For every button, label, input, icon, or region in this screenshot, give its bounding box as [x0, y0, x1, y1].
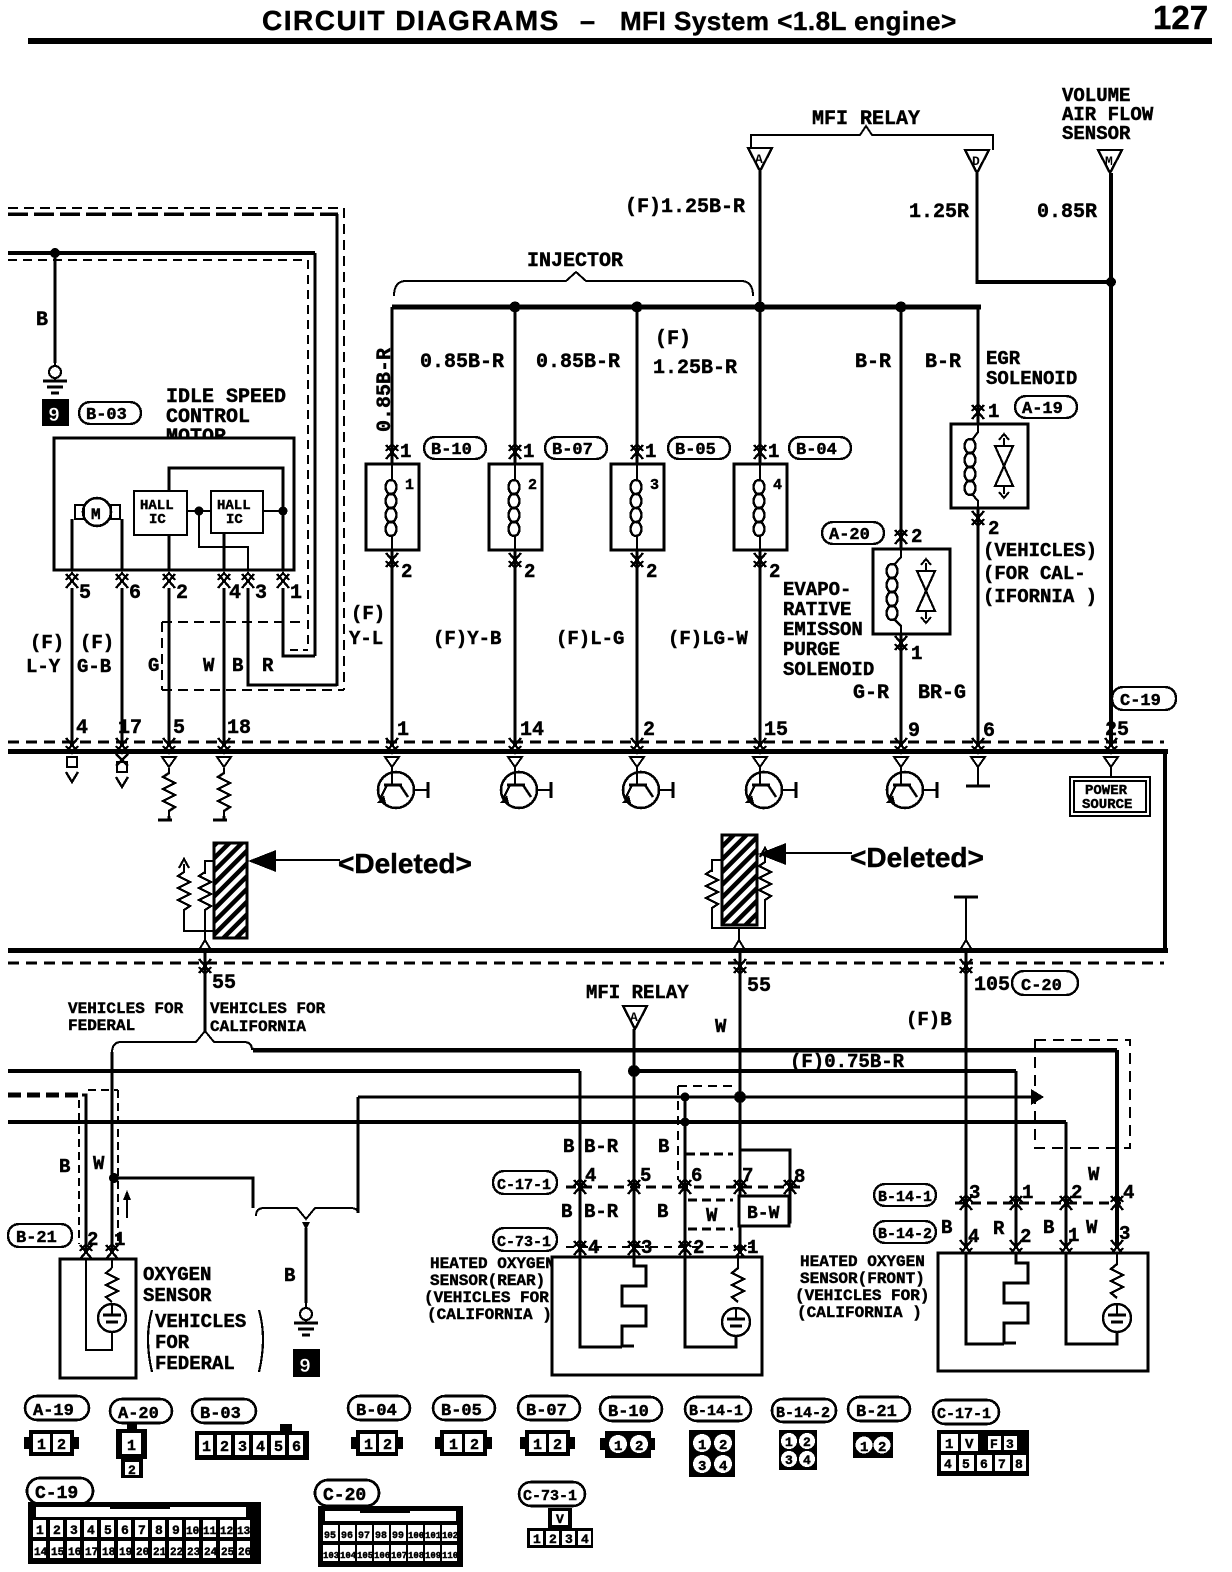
transistor at ECU pin 9 [886, 757, 937, 808]
svg-text:B: B [232, 655, 243, 677]
svg-text:2: 2 [470, 1437, 479, 1454]
wire pin6 to ECU pin17 [121, 588, 124, 745]
motor M circle [83, 498, 111, 526]
svg-text:(VEHICLES FOR): (VEHICLES FOR) [795, 1287, 929, 1305]
svg-text:2: 2 [53, 1523, 61, 1538]
svg-text:B-W: B-W [747, 1204, 780, 1224]
svg-text:104: 104 [340, 1551, 357, 1561]
internal element: sensor circle [98, 1304, 126, 1332]
svg-text:C-73-1: C-73-1 [523, 1488, 577, 1505]
bus line california y1048 [253, 1048, 1117, 1053]
ECU connector dashed line [8, 741, 1164, 744]
svg-text:(F)L-G: (F)L-G [556, 628, 624, 650]
relay terminal A triangle [748, 148, 772, 171]
svg-text:109: 109 [425, 1551, 441, 1561]
connector B-10 oval [600, 1397, 662, 1421]
connector C-17-1 pins [937, 1430, 1029, 1476]
motor lead wires [71, 519, 74, 570]
injector 1 coil [386, 480, 397, 536]
EGR pin 2 mark [972, 511, 984, 526]
connector oval B-03 [79, 402, 141, 424]
resistor right with arrow [760, 848, 770, 857]
svg-text:W: W [1086, 1217, 1098, 1239]
svg-text:1: 1 [768, 441, 779, 463]
svg-text:2: 2 [57, 1437, 66, 1454]
svg-text:6: 6 [691, 1165, 702, 1187]
svg-text:2: 2 [549, 1532, 557, 1547]
svg-text:0.85B-R: 0.85B-R [374, 348, 397, 432]
y1071 corner down [1014, 1071, 1017, 1248]
svg-text:B-03: B-03 [200, 1405, 241, 1424]
HALL IC 1 box [134, 491, 187, 535]
bracket under MFI RELAY [751, 126, 993, 150]
svg-text:B-21: B-21 [856, 1403, 897, 1422]
ground wire B [305, 1228, 308, 1303]
connector B-04 pins [351, 1430, 403, 1456]
rear sensor box [552, 1257, 762, 1375]
svg-text:<Deleted>: <Deleted> [850, 842, 984, 873]
purge pin 1 mark [895, 636, 907, 651]
heater return wire [966, 1253, 1004, 1344]
svg-text:3: 3 [650, 477, 659, 494]
svg-text:18: 18 [227, 717, 251, 740]
svg-text:6: 6 [983, 720, 995, 743]
svg-text:C-17-1: C-17-1 [937, 1406, 991, 1423]
HALL2 bottom wire (pin4) [223, 533, 226, 570]
svg-text:3: 3 [565, 1532, 573, 1547]
svg-text:C-20: C-20 [323, 1486, 366, 1506]
purge pin 2 mark [895, 529, 907, 544]
svg-text:6: 6 [129, 582, 141, 605]
svg-text:INJECTOR: INJECTOR [527, 250, 623, 273]
svg-text:1: 1 [397, 719, 409, 742]
resistor left [712, 860, 722, 872]
svg-text:W: W [1088, 1164, 1100, 1186]
svg-text:C-73-1: C-73-1 [497, 1234, 551, 1251]
svg-text:22: 22 [170, 1547, 183, 1559]
svg-text:12: 12 [220, 1526, 233, 1538]
injector 2 box [489, 464, 542, 550]
svg-text:B-07: B-07 [552, 441, 593, 460]
arrow to Deleted [758, 843, 786, 865]
connector oval A-19 [1015, 396, 1077, 418]
front sensor box [938, 1253, 1148, 1371]
connector oval A-20 [822, 522, 884, 544]
HALL link wire [187, 510, 211, 512]
svg-text:3: 3 [238, 1439, 247, 1456]
svg-text:23: 23 [187, 1547, 201, 1559]
svg-text:2: 2 [401, 561, 412, 583]
svg-text:1: 1 [523, 441, 534, 463]
svg-text:VEHICLES FOR: VEHICLES FOR [68, 1000, 184, 1018]
EGR coil [965, 439, 976, 495]
svg-text:1: 1 [37, 1437, 46, 1454]
svg-text:4: 4 [1123, 1182, 1134, 1204]
svg-text:4: 4 [585, 1165, 596, 1187]
svg-text:FEDERAL: FEDERAL [68, 1017, 135, 1035]
bus terminal marks [66, 738, 78, 753]
svg-text:9: 9 [908, 720, 920, 743]
svg-text:HEATED OXYGEN: HEATED OXYGEN [430, 1255, 555, 1273]
svg-text:SOLENOID: SOLENOID [783, 659, 874, 681]
svg-text:2: 2 [911, 526, 922, 548]
svg-text:14: 14 [520, 719, 544, 742]
up arrow mark [126, 1196, 128, 1218]
pin symbol at ECU pin 4 [66, 757, 78, 782]
svg-text:VEHICLES FOR: VEHICLES FOR [210, 1000, 326, 1018]
svg-text:Y-L: Y-L [349, 628, 383, 650]
injector 2 pin 2 mark [509, 553, 521, 568]
svg-text:CIRCUIT DIAGRAMS: CIRCUIT DIAGRAMS [262, 5, 560, 36]
injector 3 pin 1 mark [631, 444, 643, 459]
svg-text:4: 4 [581, 1532, 589, 1547]
svg-text:2: 2 [176, 582, 188, 605]
svg-text:3: 3 [70, 1523, 78, 1538]
svg-text:4: 4 [229, 582, 241, 605]
branch to ground brace [114, 1178, 253, 1208]
pin marks [960, 1195, 972, 1210]
wire pin1/R to inner shield [283, 588, 315, 656]
svg-text:C-17-1: C-17-1 [497, 1177, 551, 1194]
svg-text:14: 14 [34, 1547, 48, 1559]
pin marks on C-17-1 [574, 1179, 586, 1194]
svg-text:15: 15 [51, 1547, 65, 1559]
header rule [28, 38, 1212, 44]
svg-text:2: 2 [646, 561, 657, 583]
svg-text:2: 2 [635, 1439, 643, 1455]
svg-text:B: B [657, 1201, 668, 1223]
svg-text:(F)Y-B: (F)Y-B [433, 628, 501, 650]
injector 4 box [734, 464, 787, 550]
svg-text:4: 4 [944, 1457, 952, 1472]
sensor return [685, 1257, 736, 1347]
svg-text:1.25R: 1.25R [909, 201, 969, 224]
connector oval B-14-1 [874, 1184, 936, 1206]
transistor at ECU pin 15 [745, 757, 796, 808]
connector oval C-19 [1112, 687, 1176, 710]
california branch corner [252, 1048, 255, 1050]
junction at VAF wire [1106, 277, 1116, 287]
svg-text:1: 1 [400, 441, 411, 463]
shield dashes around B/W wires [88, 1089, 118, 1091]
svg-text:6: 6 [292, 1439, 301, 1456]
svg-text:1: 1 [202, 1439, 211, 1456]
svg-text:1: 1 [1022, 1182, 1033, 1204]
svg-text:F: F [990, 1437, 998, 1452]
svg-text:4: 4 [76, 717, 88, 740]
svg-text:127: 127 [1153, 0, 1208, 36]
wire 5 from dot down [632, 1029, 635, 1246]
svg-text:(VEHICLES FOR): (VEHICLES FOR) [424, 1289, 558, 1307]
wire 6 [683, 1097, 686, 1246]
svg-text:M: M [91, 506, 101, 524]
svg-text:4: 4 [803, 1453, 811, 1468]
svg-text:96: 96 [341, 1531, 353, 1542]
ground wire B [54, 253, 57, 363]
outer shield wire top [8, 212, 338, 216]
svg-text:B-R: B-R [584, 1201, 619, 1223]
injector 3 coil [631, 480, 642, 536]
svg-text:8: 8 [1015, 1457, 1023, 1472]
brace under INJECTOR [394, 272, 753, 296]
svg-text:11: 11 [203, 1526, 217, 1538]
svg-text:2: 2 [719, 1438, 727, 1454]
brace tick arrow [302, 1222, 310, 1230]
connector B-03 pins [195, 1424, 309, 1460]
svg-text:20: 20 [136, 1547, 149, 1559]
EGR valve bowtie [995, 434, 1013, 498]
connector B-14-2 pins [779, 1430, 817, 1470]
svg-text:(CALIFORNIA ): (CALIFORNIA ) [797, 1304, 922, 1322]
svg-text:102: 102 [442, 1531, 458, 1541]
svg-text:1.25B-R: 1.25B-R [653, 357, 737, 380]
svg-text:B: B [59, 1156, 70, 1178]
svg-text:4: 4 [968, 1226, 979, 1248]
wire to bottom with open triangle [738, 928, 740, 940]
connector oval C-17-1 [493, 1171, 557, 1194]
transistor at ECU pin 14 [500, 757, 551, 808]
svg-text:0.85B-R: 0.85B-R [420, 351, 504, 374]
svg-text:B: B [561, 1201, 572, 1223]
svg-text:10: 10 [186, 1526, 199, 1538]
motor box [54, 438, 294, 570]
svg-text:1: 1 [127, 1438, 136, 1455]
svg-text:B-07: B-07 [526, 1402, 567, 1421]
svg-text:0.85R: 0.85R [1037, 201, 1097, 224]
svg-text:EGR: EGR [986, 348, 1021, 370]
svg-text:101: 101 [425, 1531, 442, 1541]
bottom link wire [712, 908, 765, 928]
svg-text:D: D [972, 154, 980, 169]
connector oval B-05 [668, 437, 730, 459]
svg-text:L-Y: L-Y [26, 656, 61, 678]
svg-text:FOR: FOR [155, 1332, 190, 1354]
ECU right edge [1163, 751, 1167, 953]
wire D to M horizontal [977, 280, 1111, 284]
connector dashed box bottom [162, 689, 344, 691]
svg-text:V: V [556, 1512, 564, 1527]
svg-text:C-19: C-19 [35, 1484, 78, 1504]
svg-text:1: 1 [614, 1439, 622, 1455]
svg-text:1: 1 [290, 582, 302, 605]
svg-text:8: 8 [155, 1523, 163, 1538]
svg-text:105: 105 [357, 1551, 373, 1561]
injector bus wire [392, 305, 981, 310]
svg-text:1: 1 [860, 1440, 868, 1456]
connector C-19 oval [27, 1478, 93, 1504]
svg-text:1: 1 [945, 1437, 953, 1453]
california line corner down [1115, 1050, 1119, 1248]
ground symbol [43, 360, 67, 393]
svg-text:1: 1 [533, 1437, 542, 1454]
svg-text:G-B: G-B [77, 656, 111, 678]
power source entry pin 25 [1104, 757, 1118, 767]
svg-text:G: G [148, 655, 159, 677]
svg-text:B-21: B-21 [16, 1229, 57, 1248]
svg-text:2: 2 [528, 477, 537, 494]
connector A-19 pins [24, 1430, 79, 1456]
svg-text:A-20: A-20 [829, 526, 870, 545]
injector 4 wire [759, 307, 762, 745]
svg-text:B-14-1: B-14-1 [878, 1189, 932, 1206]
svg-text:B-14-2: B-14-2 [776, 1405, 830, 1422]
outer shield wire vertical [336, 214, 339, 686]
svg-text:BR-G: BR-G [918, 682, 966, 705]
svg-text:(F)0.75B-R: (F)0.75B-R [790, 1051, 905, 1073]
svg-text:PURGE: PURGE [783, 639, 840, 661]
POWER SOURCE box [1070, 777, 1150, 816]
svg-text:17: 17 [118, 717, 142, 740]
svg-text:19: 19 [119, 1547, 132, 1559]
svg-text:2: 2 [1020, 1226, 1031, 1248]
inner shield dashed [8, 259, 308, 261]
svg-text:9: 9 [48, 405, 60, 428]
svg-text:1: 1 [533, 1532, 541, 1547]
motor pin 5 mark [66, 573, 78, 588]
svg-text:108: 108 [408, 1551, 424, 1561]
svg-text:9: 9 [172, 1523, 180, 1538]
svg-text:B: B [284, 1265, 295, 1287]
pin marks [80, 1244, 92, 1259]
svg-text:B-04: B-04 [356, 1402, 397, 1421]
connector oval B-10 [424, 437, 486, 459]
dashed shield top box [678, 1085, 737, 1087]
ground symbol [294, 1302, 318, 1335]
bus line y1071 left segment [8, 1069, 580, 1073]
svg-text:99: 99 [392, 1531, 404, 1542]
connector A-19 oval [25, 1396, 89, 1420]
svg-text:2: 2 [643, 719, 655, 742]
connector oval B-07 [545, 437, 607, 459]
svg-text:1: 1 [449, 1437, 458, 1454]
injector 4 coil [754, 480, 765, 536]
y1122 corner down [1064, 1122, 1067, 1248]
HALL1 bottom wire (pin2) [168, 535, 171, 570]
purge wire from bus [900, 307, 903, 745]
injector 2 pin 1 mark [509, 444, 521, 459]
wire 4 from y1071 corner [578, 1071, 581, 1246]
svg-text:B-14-2: B-14-2 [878, 1226, 932, 1243]
injector 4 pin 1 mark [754, 444, 766, 459]
svg-text:5: 5 [274, 1439, 283, 1456]
svg-text:OXYGEN: OXYGEN [143, 1264, 211, 1286]
EGR wire from bus [978, 307, 981, 745]
svg-text:(F): (F) [30, 632, 64, 654]
bottom link wire [184, 916, 214, 931]
svg-text:B: B [563, 1136, 574, 1158]
svg-text:(VEHICLES): (VEHICLES) [983, 540, 1097, 562]
arrowhead right end [1031, 1089, 1044, 1105]
svg-text:B: B [1043, 1217, 1054, 1239]
connector C-17-1 oval [933, 1400, 999, 1424]
svg-text:(FOR CAL-: (FOR CAL- [983, 563, 1086, 585]
resistor at ECU pin 5 [162, 757, 176, 767]
heater element [1004, 1253, 1028, 1343]
brace split [112, 1031, 252, 1053]
sensor circle [722, 1308, 750, 1336]
svg-text:B-05: B-05 [441, 1402, 482, 1421]
purge solenoid box [873, 549, 950, 634]
svg-text:SENSOR: SENSOR [1062, 123, 1131, 145]
svg-text:7: 7 [998, 1457, 1006, 1472]
terminator at ECU pin 6 [971, 757, 985, 767]
svg-text:2: 2 [803, 1435, 811, 1450]
sensor return [1066, 1253, 1117, 1344]
svg-text:9: 9 [299, 1356, 311, 1379]
svg-text:MFI RELAY: MFI RELAY [586, 982, 689, 1004]
svg-text:C-19: C-19 [1120, 692, 1161, 711]
svg-text:SENSOR(REAR): SENSOR(REAR) [430, 1272, 545, 1290]
connector oval B-21 [8, 1224, 72, 1247]
junction dots on y1097 [681, 1093, 690, 1102]
svg-text:CALIFORNIA: CALIFORNIA [210, 1018, 306, 1036]
svg-text:(IFORNIA ): (IFORNIA ) [983, 586, 1097, 608]
svg-text:(F): (F) [80, 632, 114, 654]
sensor element squiggle [732, 1257, 744, 1302]
svg-text:A-19: A-19 [1022, 400, 1063, 419]
riser to california return line [357, 1097, 360, 1213]
injector 3 box [611, 464, 664, 550]
ground junction dot [50, 248, 60, 258]
svg-text:3: 3 [1006, 1437, 1014, 1452]
svg-text:B: B [941, 1217, 952, 1239]
svg-text:6: 6 [980, 1457, 988, 1472]
svg-text:B: B [36, 309, 48, 332]
inner shield vertical dashed [307, 260, 309, 650]
svg-text:98: 98 [375, 1531, 387, 1542]
svg-text:3: 3 [785, 1453, 793, 1468]
svg-text:5: 5 [104, 1523, 112, 1538]
pin3 wire from link [199, 511, 248, 570]
resistor 2 [205, 861, 214, 874]
svg-text:7: 7 [138, 1523, 146, 1538]
svg-text:55: 55 [747, 975, 771, 998]
svg-text:4: 4 [773, 477, 782, 494]
hatched box [722, 835, 757, 925]
injector 1 wire [391, 307, 394, 745]
motor pin 3 mark [242, 573, 254, 588]
svg-text:A-20: A-20 [118, 1405, 159, 1424]
dashed box right [1035, 1040, 1130, 1148]
svg-text:(CALIFORNIA ): (CALIFORNIA ) [427, 1306, 552, 1324]
svg-text:W: W [715, 1016, 727, 1038]
svg-text:17: 17 [85, 1547, 98, 1559]
connector C-73-1 oval [519, 1482, 585, 1506]
wire from VAF M down to ECU pin 25 [1109, 173, 1113, 745]
svg-text:B-R: B-R [855, 351, 891, 374]
svg-text:15: 15 [764, 719, 788, 742]
junction dots on bus [510, 302, 521, 313]
injector 3 pin 2 mark [631, 553, 643, 568]
bus line y1097 [358, 1096, 1032, 1099]
injector 1 box [366, 464, 419, 550]
heater element [622, 1257, 646, 1346]
ground brace [256, 1208, 358, 1219]
motor pin 1 mark [277, 573, 289, 588]
svg-text:24: 24 [204, 1547, 218, 1559]
svg-text:B-05: B-05 [675, 441, 716, 460]
PAGE HEADER [28, 0, 1212, 44]
injector 1 pin 2 mark [386, 553, 398, 568]
connector B-10 pins [600, 1431, 655, 1458]
svg-text:B-04: B-04 [796, 441, 837, 460]
svg-text:5: 5 [173, 717, 185, 740]
connector B-21 oval [848, 1397, 910, 1421]
pin symbol at ECU pin 17 [116, 754, 128, 787]
svg-text:103: 103 [323, 1551, 339, 1561]
junction dot y1071 wire5 [628, 1065, 640, 1077]
svg-text:V: V [965, 1437, 974, 1453]
